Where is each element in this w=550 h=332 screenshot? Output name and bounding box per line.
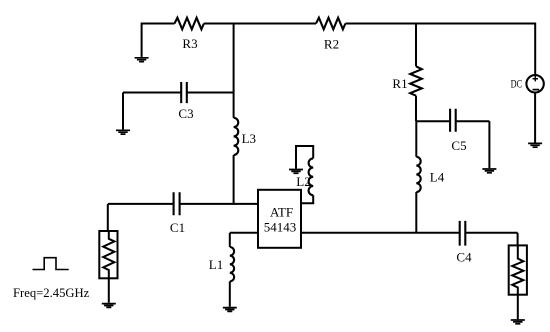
svg-text:C1: C1 <box>170 220 185 235</box>
ground (top-left) <box>135 58 149 62</box>
DC source V1 <box>511 75 544 92</box>
wire: C5 left lead <box>416 120 450 122</box>
capacitor C3 <box>178 82 193 121</box>
wire: R1 branch from rail <box>415 23 417 67</box>
svg-text:C5: C5 <box>451 138 466 153</box>
resistor R1 <box>392 66 421 95</box>
wire: port P2 to ground <box>517 295 519 319</box>
inductor L2 <box>296 158 313 195</box>
ground (L2 bypass) <box>289 170 303 174</box>
capacitor C4 <box>456 221 472 265</box>
ground (under L1) <box>223 308 237 312</box>
wire: C5 right drop to ground <box>488 121 490 168</box>
resistor inside port P2 <box>512 245 523 294</box>
transistor block U1 ATF-54143 <box>258 190 301 248</box>
svg-text:DC: DC <box>511 77 523 91</box>
svg-text:C3: C3 <box>178 106 193 121</box>
wire: L2 top hook to ground <box>296 146 313 169</box>
wire: C5 node to L4 top <box>415 121 417 157</box>
capacitor C1 <box>170 192 185 235</box>
wire: rail left end drop to ground <box>141 23 143 57</box>
svg-text:R1: R1 <box>392 76 407 91</box>
wire: top bias rail right segment <box>345 23 535 25</box>
wire: port P1 to ground <box>108 278 110 302</box>
svg-text:Freq=2.45GHz: Freq=2.45GHz <box>13 285 90 300</box>
wire: L3 bottom to gate node <box>233 155 235 205</box>
ground (under port P2) <box>511 320 525 324</box>
svg-text:ATF: ATF <box>270 205 293 220</box>
wire: rail right end drop to DC source <box>534 23 536 76</box>
inductor L1 <box>209 247 234 281</box>
wire: L1 to ground <box>229 281 231 306</box>
ground (under C3 left) <box>116 130 130 134</box>
capacitor C5 <box>450 109 466 153</box>
resistor R3 <box>175 18 204 51</box>
wire: output drop to port P2 <box>517 233 519 246</box>
wire: source port drop <box>107 204 109 231</box>
svg-text:54143: 54143 <box>264 219 297 234</box>
wire: C3 node to L3 top <box>233 93 235 118</box>
inductor L3 <box>234 118 256 155</box>
ground (under C5 right) <box>482 169 496 173</box>
svg-text:L3: L3 <box>242 131 256 146</box>
wire: C3 left lead <box>123 92 181 94</box>
wire: top bias rail middle segment <box>204 23 316 25</box>
svg-text:L2: L2 <box>296 174 310 189</box>
inductor L4 <box>416 157 444 192</box>
wire: top bias rail left segment <box>142 23 175 25</box>
svg-text:R2: R2 <box>324 36 339 51</box>
ground (under DC source) <box>528 143 542 147</box>
wire: L1 stub to ATF box <box>230 232 258 234</box>
wire: gate line, port to C1 <box>108 203 174 205</box>
svg-text:L1: L1 <box>209 257 223 272</box>
wire: L4 bottom to drain line <box>415 192 417 233</box>
wire: gate line, C1 to ATF box <box>180 203 258 205</box>
port P1 box (source termination) <box>99 231 117 278</box>
ground (under port P1) <box>102 304 116 308</box>
svg-text:C4: C4 <box>456 250 472 265</box>
wire: DC source to ground <box>534 93 536 143</box>
svg-text:L4: L4 <box>430 170 445 185</box>
wire: C3 left drop to ground <box>122 93 124 130</box>
svg-text:R3: R3 <box>182 36 197 51</box>
wire: drain line, ATF box to C4 <box>301 232 460 234</box>
resistor inside port P1 <box>103 231 114 278</box>
resistor R2 <box>316 18 345 52</box>
wire: C5 right lead <box>456 120 490 122</box>
wire: L1 vertical top <box>229 233 231 247</box>
wire: R1 bottom to C5 node <box>415 96 417 122</box>
wire: C3 right lead <box>187 92 234 94</box>
port P2 box (output termination) <box>509 245 527 294</box>
pulse source symbol <box>33 258 69 270</box>
wire: L3 branch, rail to C3 node <box>233 23 235 93</box>
wire: drain line, C4 to output corner <box>465 232 517 234</box>
wire: L2 stub from ATF box <box>301 195 313 203</box>
